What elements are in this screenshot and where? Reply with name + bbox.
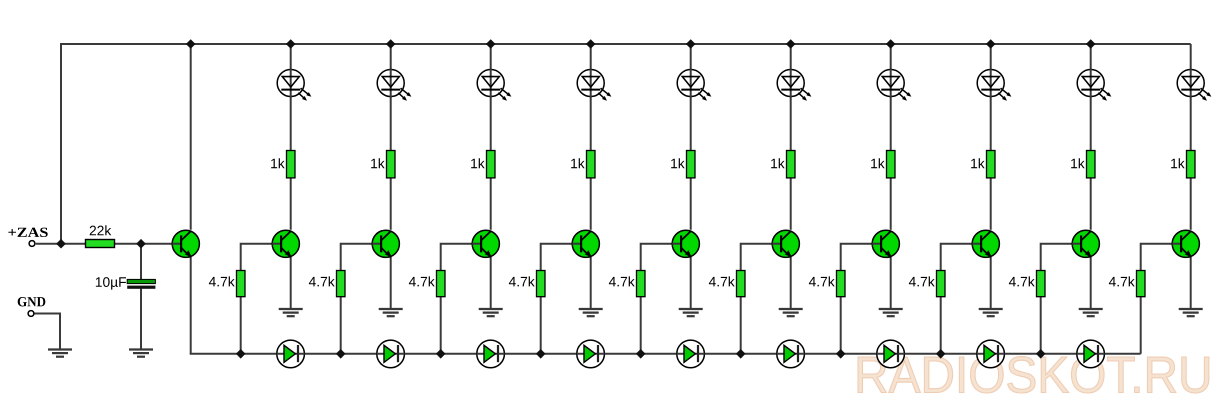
ground (Q8 emitter): [879, 309, 903, 316]
LED D1: [277, 69, 311, 101]
wire: rail to LED D5: [690, 44, 692, 69]
wire: LED D10 to resistor R10a: [1190, 97, 1192, 150]
wire: emitter of Q5 to ground: [590, 257, 592, 309]
resistor 4.7k (stage 6): [737, 271, 746, 297]
node: top rail junction 2: [386, 39, 396, 49]
diode (photodiode) stage 4: [577, 340, 605, 368]
label 4.7k (stage 2): [309, 276, 335, 286]
node: bottom rail junction 1: [236, 349, 246, 359]
wire: base of Q3: [341, 244, 382, 270]
wire: rail to LED D4: [590, 44, 592, 69]
wire: resistor R2b to bottom rail: [340, 297, 342, 354]
wire: emitter of Q4 to ground: [490, 257, 492, 309]
node: Q1 collector junction: [186, 39, 196, 49]
resistor 1k (stage 5): [687, 151, 696, 178]
resistor 1k (stage 1): [287, 151, 296, 178]
resistor 1k (stage 8): [987, 151, 996, 178]
label 4.7k (stage 8): [909, 276, 935, 286]
ground (Q5 emitter): [579, 309, 603, 316]
LED D10: [1177, 69, 1211, 101]
resistor 1k (stage 6): [787, 151, 796, 178]
resistor 4.7k (stage 1): [237, 271, 246, 297]
wire: resistor to collector of Q3: [390, 179, 392, 230]
ground (GND terminal): [48, 350, 72, 357]
label 4.7k (stage 10): [1109, 276, 1135, 286]
resistor 1k (stage 9): [1087, 151, 1096, 178]
ground (Q9 emitter): [979, 309, 1003, 316]
wire: base of Q6: [641, 244, 682, 270]
transistor Q4: [472, 230, 499, 257]
watermark RADIOSKOT.RU: [858, 357, 1209, 393]
LED D8: [977, 69, 1011, 101]
diode (photodiode) stage 3: [477, 340, 505, 368]
label 1k (stage 9): [1071, 158, 1085, 168]
wire: base of Q11: [1141, 244, 1182, 270]
ground (C1): [129, 350, 153, 357]
wire: LED D9 to resistor R9a: [1090, 97, 1092, 150]
transistor Q6: [672, 230, 699, 257]
label 1k (stage 3): [471, 158, 485, 168]
node: bottom rail junction 8: [936, 349, 946, 359]
node: RC junction: [136, 239, 146, 249]
transistor Q1: [172, 230, 199, 257]
wire: rail to LED D10: [1190, 44, 1192, 69]
wire: +V top rail: [61, 44, 1191, 244]
label 1k (stage 4): [571, 158, 585, 168]
label 4.7k (stage 3): [409, 276, 435, 286]
wire: resistor R5b to bottom rail: [640, 297, 642, 354]
node: top rail junction 4: [586, 39, 596, 49]
label 4.7k (stage 4): [509, 276, 535, 286]
resistor 1k (stage 4): [587, 151, 596, 178]
ground (Q4 emitter): [479, 309, 503, 316]
diode (photodiode) stage 6: [777, 340, 805, 368]
label +ZAS: [8, 228, 47, 237]
node: top rail junction 3: [486, 39, 496, 49]
wire: resistor to collector of Q8: [890, 179, 892, 230]
wire: emitter of Q10 to ground: [1090, 257, 1092, 309]
resistor 4.7k (stage 9): [1037, 271, 1046, 297]
LED D7: [877, 69, 911, 101]
label 4.7k (stage 5): [609, 276, 635, 286]
wire: resistor to collector of Q6: [690, 179, 692, 230]
ground (Q3 emitter): [379, 309, 403, 316]
node: top rail junction 9: [1086, 39, 1096, 49]
diode (photodiode) stage 7: [877, 340, 905, 368]
node: bottom rail junction 3: [436, 349, 446, 359]
wire: base of Q7: [741, 244, 782, 270]
LED D2: [377, 69, 411, 101]
wire: rail to LED D7: [890, 44, 892, 69]
node: bottom rail junction 6: [736, 349, 746, 359]
wire: rail to LED D2: [390, 44, 392, 69]
transistor Q9: [972, 230, 999, 257]
wire: base of Q9: [941, 244, 982, 270]
LED D3: [477, 69, 511, 101]
label 1k (stage 2): [371, 158, 385, 168]
wire: LED D7 to resistor R7a: [890, 97, 892, 150]
wire: LED D8 to resistor R8a: [990, 97, 992, 150]
wire: LED D5 to resistor R5a: [690, 97, 692, 150]
terminal +ZAS: [29, 241, 35, 247]
wire: C1 branch lower to ground: [140, 289, 142, 350]
wire: emitter of Q8 to ground: [890, 257, 892, 309]
wire: resistor R7b to bottom rail: [840, 297, 842, 354]
wire: emitter of Q11 to ground: [1190, 257, 1192, 309]
wire: LED D3 to resistor R3a: [490, 97, 492, 150]
wire: LED D6 to resistor R6a: [790, 97, 792, 150]
node: bottom rail junction 7: [836, 349, 846, 359]
transistor Q5: [572, 230, 599, 257]
transistor Q10: [1072, 230, 1099, 257]
ground (Q2 emitter): [279, 309, 303, 316]
node: +ZAS junction: [56, 239, 66, 249]
diode (photodiode) stage 2: [377, 340, 405, 368]
wire: rail to LED D9: [1090, 44, 1092, 69]
ground (Q10 emitter): [1079, 309, 1103, 316]
resistor 4.7k (stage 3): [437, 271, 446, 297]
LED D4: [577, 69, 611, 101]
label 1k (stage 7): [871, 158, 885, 168]
wire: resistor R10b to bottom rail: [1140, 297, 1142, 354]
label 4.7k (stage 6): [709, 276, 735, 286]
wire: base of Q10: [1041, 244, 1082, 270]
wire: base of Q8: [841, 244, 882, 270]
wire: resistor to collector of Q4: [490, 179, 492, 230]
wire: emitter of Q9 to ground: [990, 257, 992, 309]
capacitor C1 10uF: [127, 279, 155, 288]
wire: emitter of Q6 to ground: [690, 257, 692, 309]
resistor 4.7k (stage 2): [337, 271, 346, 297]
wire: LED D1 to resistor R1a: [290, 97, 292, 150]
wire: rail to LED D6: [790, 44, 792, 69]
diode (photodiode) stage 1: [277, 340, 305, 368]
node: bottom rail junction 5: [636, 349, 646, 359]
wire: base of Q4: [441, 244, 482, 270]
wire: input to base of Q1: [36, 243, 181, 245]
resistor 4.7k (stage 7): [837, 271, 846, 297]
wire: resistor R1b to bottom rail: [240, 297, 242, 354]
wire: rail to LED D3: [490, 44, 492, 69]
wire: Q1 emitter to bottom rail: [190, 257, 192, 354]
wire: rail to LED D1: [290, 44, 292, 69]
wire: LED D2 to resistor R2a: [390, 97, 392, 150]
label 1k (stage 10): [1171, 158, 1185, 168]
wire: emitter of Q3 to ground: [390, 257, 392, 309]
transistor Q3: [372, 230, 399, 257]
ground (Q11 emitter): [1179, 309, 1203, 316]
wire: rail to LED D8: [990, 44, 992, 69]
resistor 1k (stage 2): [387, 151, 396, 178]
node: top rail junction 5: [686, 39, 696, 49]
node: bottom rail junction 4: [536, 349, 546, 359]
resistor 1k (stage 3): [487, 151, 496, 178]
wire: resistor R6b to bottom rail: [740, 297, 742, 354]
node: bottom rail junction 9: [1036, 349, 1046, 359]
diode (photodiode) stage 5: [677, 340, 705, 368]
wire: resistor to collector of Q9: [990, 179, 992, 230]
wire: resistor R4b to bottom rail: [540, 297, 542, 354]
LED D9: [1077, 69, 1111, 101]
wire: resistor R9b to bottom rail: [1040, 297, 1042, 354]
LED D6: [777, 69, 811, 101]
resistor 4.7k (stage 4): [537, 271, 546, 297]
wire: Q1 collector to top rail: [190, 44, 192, 230]
terminal GND: [28, 311, 34, 317]
wire: resistor to collector of Q2: [290, 179, 292, 230]
wire: resistor R8b to bottom rail: [940, 297, 942, 354]
wire: resistor to collector of Q10: [1090, 179, 1092, 230]
node: top rail junction 7: [886, 39, 896, 49]
resistor 4.7k (stage 5): [637, 271, 646, 297]
label 22k: [90, 225, 112, 235]
label 1k (stage 5): [671, 158, 685, 168]
node: bottom rail junction 2: [336, 349, 346, 359]
diode (photodiode) stage 9: [1077, 340, 1105, 368]
label 1k (stage 8): [971, 158, 985, 168]
node: top rail junction 1: [286, 39, 296, 49]
wire: resistor to collector of Q7: [790, 179, 792, 230]
label 1k (stage 1): [271, 158, 285, 168]
label 4.7k (stage 7): [809, 276, 835, 286]
node: top rail junction 8: [986, 39, 996, 49]
transistor Q11: [1172, 230, 1199, 257]
transistor Q7: [772, 230, 799, 257]
wire: C1 branch upper: [140, 244, 142, 280]
wire: resistor R3b to bottom rail: [440, 297, 442, 354]
label 10uF: [96, 277, 126, 290]
LED D5: [677, 69, 711, 101]
node: top rail junction 6: [786, 39, 796, 49]
wire: emitter of Q2 to ground: [290, 257, 292, 309]
resistor 1k (stage 7): [887, 151, 896, 178]
wire: base of Q2: [241, 244, 282, 270]
resistor R0 22k: [86, 240, 115, 248]
wire: LED D4 to resistor R4a: [590, 97, 592, 150]
label 4.7k (stage 1): [209, 276, 235, 286]
ground (Q7 emitter): [779, 309, 803, 316]
resistor 4.7k (stage 10): [1137, 271, 1146, 297]
label 4.7k (stage 9): [1009, 276, 1035, 286]
wire: base of Q5: [541, 244, 582, 270]
wire: resistor to collector of Q5: [590, 179, 592, 230]
label GND: [18, 297, 46, 306]
wire: bottom common rail: [190, 353, 1141, 355]
diode (photodiode) stage 8: [977, 340, 1005, 368]
transistor Q2: [272, 230, 299, 257]
wire: emitter of Q7 to ground: [790, 257, 792, 309]
ground (Q6 emitter): [679, 309, 703, 316]
resistor 1k (stage 10): [1187, 151, 1196, 178]
label 1k (stage 6): [771, 158, 785, 168]
resistor 4.7k (stage 8): [937, 271, 946, 297]
wire: GND terminal to ground: [34, 314, 60, 350]
transistor Q8: [872, 230, 899, 257]
wire: resistor to collector of Q11: [1190, 179, 1192, 230]
